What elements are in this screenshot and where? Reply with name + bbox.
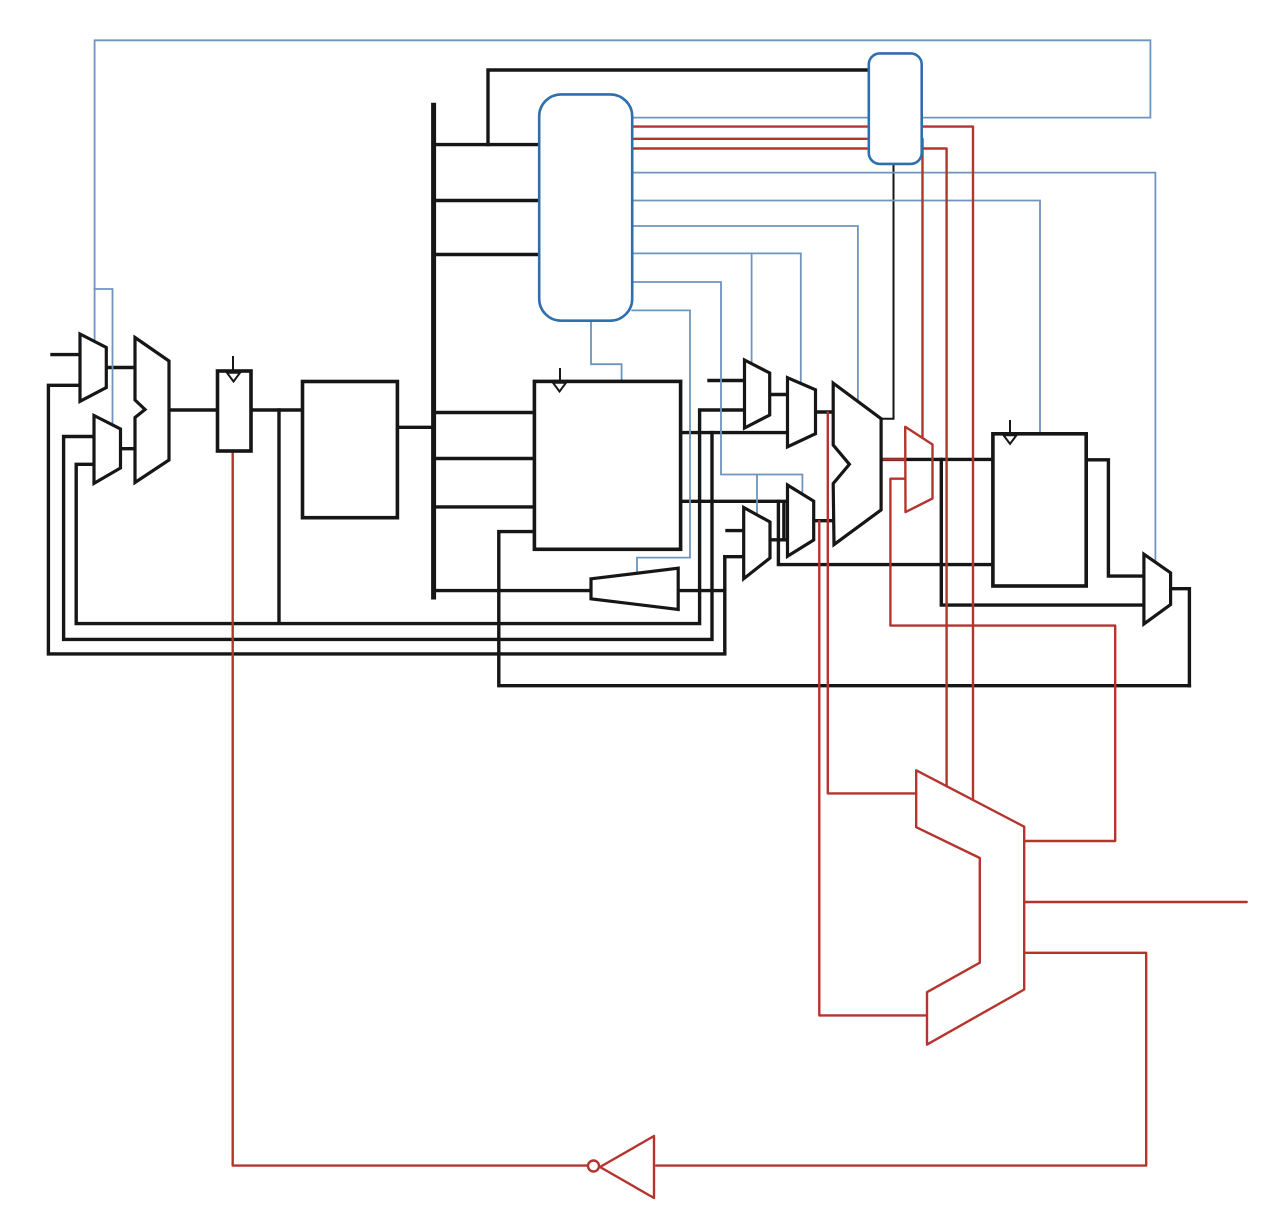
mux PCmuxB (RD1/PC) [94, 416, 121, 484]
wire PC register out to Instr Memory A [251, 408, 303, 411]
wire RD1 to mux2 in0 [681, 431, 788, 434]
inverter notbusy triangle [600, 1136, 654, 1198]
wire const0 to mux1 in0 [709, 379, 745, 382]
clk triangle register file [553, 383, 566, 392]
wire ALUSrcB to mux3 select [632, 282, 802, 494]
wire muxB out to adder [121, 447, 137, 450]
block Data Memory [993, 434, 1086, 586]
wire red start from decoder to MulDiv [632, 149, 947, 787]
wire red busy from MulDiv to inverter [656, 953, 1146, 1166]
wire CLK stub data memory [1009, 421, 1011, 434]
wire red Result1 loop to result mux in1 [890, 479, 1115, 841]
inverter bubble [588, 1161, 599, 1172]
mux red MulDiv result mux [905, 427, 932, 512]
wire MemWrite to Data Memory WE [632, 201, 1040, 434]
wire mux4 in1 from ExtImm vertical [725, 555, 744, 558]
wire muxA out to adder [106, 366, 136, 369]
mux PCmuxA (4/ExtImm) [80, 334, 106, 401]
wire ALUResult branch down to mux5 in0 [941, 459, 1144, 605]
mux4 SrcB (4/ExtImm) [744, 508, 770, 579]
wire RD2 to mux3 in0 [681, 500, 789, 503]
block red MulDiv unit [916, 770, 1024, 1044]
wire tap 14:12 to decoder funct3 [434, 143, 540, 146]
wire RD1 feedback loop (to muxB in1) [64, 433, 712, 640]
wire tap 6:0 to decoder opcode [434, 199, 540, 202]
adder PC_IN [135, 338, 169, 483]
wire red MCycleOp from decoder to MulDiv [632, 127, 973, 800]
wire CLK stub register file [559, 369, 561, 381]
wire PCS decoder to PC Logic [632, 117, 869, 119]
wire ALUControl to ALU [632, 226, 858, 402]
wire PC feedback loop (PC node down, left, up, to mux1 in1 and muxB in0) [76, 410, 744, 624]
wire tap 11:7 to rd [434, 505, 535, 508]
wire Data Memory RD ReadData to mux5 in1 [1086, 460, 1144, 576]
wire mux5 out to Result [1171, 589, 1190, 686]
wire red Operand1 from SrcA [828, 413, 916, 794]
wire ALUSrcA branch to mux1 select [751, 253, 753, 364]
wire tap 24:20 to rs2 [434, 457, 535, 460]
wire CLK stub PC register [232, 357, 234, 372]
wire PCSrc bit1 to muxB select [95, 289, 113, 425]
wire PCSrc loop from PC Logic around top to PC muxes [95, 40, 1151, 289]
block Extend [591, 568, 678, 609]
wire tap 31:25 to decoder funct7 [434, 253, 540, 256]
clk triangle PC register [227, 373, 240, 382]
wire Instr Memory RD to instr bus [397, 426, 433, 429]
wire red Operand2 from SrcB [819, 521, 927, 1015]
mux2 SrcA (mux1/RD1) [788, 378, 816, 447]
wire instr bus (thick vertical) [431, 105, 436, 597]
mux3 SrcB (RD2/mux4) [788, 485, 814, 556]
wire ALUResult to Data Memory A [881, 458, 993, 461]
wire RD2 branch down to WriteData [778, 501, 993, 564]
wire ALUFlags from ALU to PC Logic [881, 164, 893, 419]
wire SrcB mux3 out to ALU [814, 519, 834, 522]
wire const4 to muxA in0 [52, 353, 80, 356]
mux5 ReadData/ALUResult [1144, 554, 1171, 624]
op-amp ALU [833, 383, 881, 544]
wire adder out PC_IN to PC register [169, 408, 218, 411]
wire ImmSrc to Extend [632, 310, 690, 573]
wire red MulDiv-select from decoder to result mux [632, 139, 923, 438]
wire const4 to mux4 in0 [727, 529, 744, 532]
block Decoder [539, 94, 632, 320]
wire RegWrite to register file WE [591, 321, 622, 382]
wire mux4 out to mux3 in1 [770, 538, 788, 541]
wire red notbusy from inverter to PC WE [233, 451, 588, 1166]
wire Result bus and WD riser to register file [499, 532, 1190, 686]
mux1 SrcA (0/PC) [745, 360, 770, 428]
wire red Result2 out [1024, 901, 1247, 903]
wire jog near mux3 [782, 503, 785, 540]
wire PCSrc bit0 to muxA select [94, 289, 96, 341]
wire funct3 to PC Logic [488, 70, 869, 145]
wire ALUSrcA to mux2 select [632, 253, 801, 383]
wire tap 31:7 InstrImm to Extend [434, 589, 591, 592]
wire mux1 out to mux2 in1 [770, 393, 788, 396]
wire red ALU out overtrace [881, 458, 905, 460]
block Instr Memory [303, 382, 398, 518]
register PC [218, 371, 252, 451]
wire ExtImm feedback loop (extend out, down, left, up to muxA in1) [48, 385, 724, 654]
clk triangle data memory [1004, 435, 1017, 444]
wire ALUSrcB branch to mux4 select [756, 475, 758, 515]
block PC Logic [869, 53, 922, 163]
wire tap 19:15 to rs1 [434, 411, 535, 414]
wire MemtoReg to mux5 select [632, 173, 1155, 563]
wire SrcA mux2 out to ALU [816, 410, 834, 413]
block Register File [534, 381, 680, 549]
